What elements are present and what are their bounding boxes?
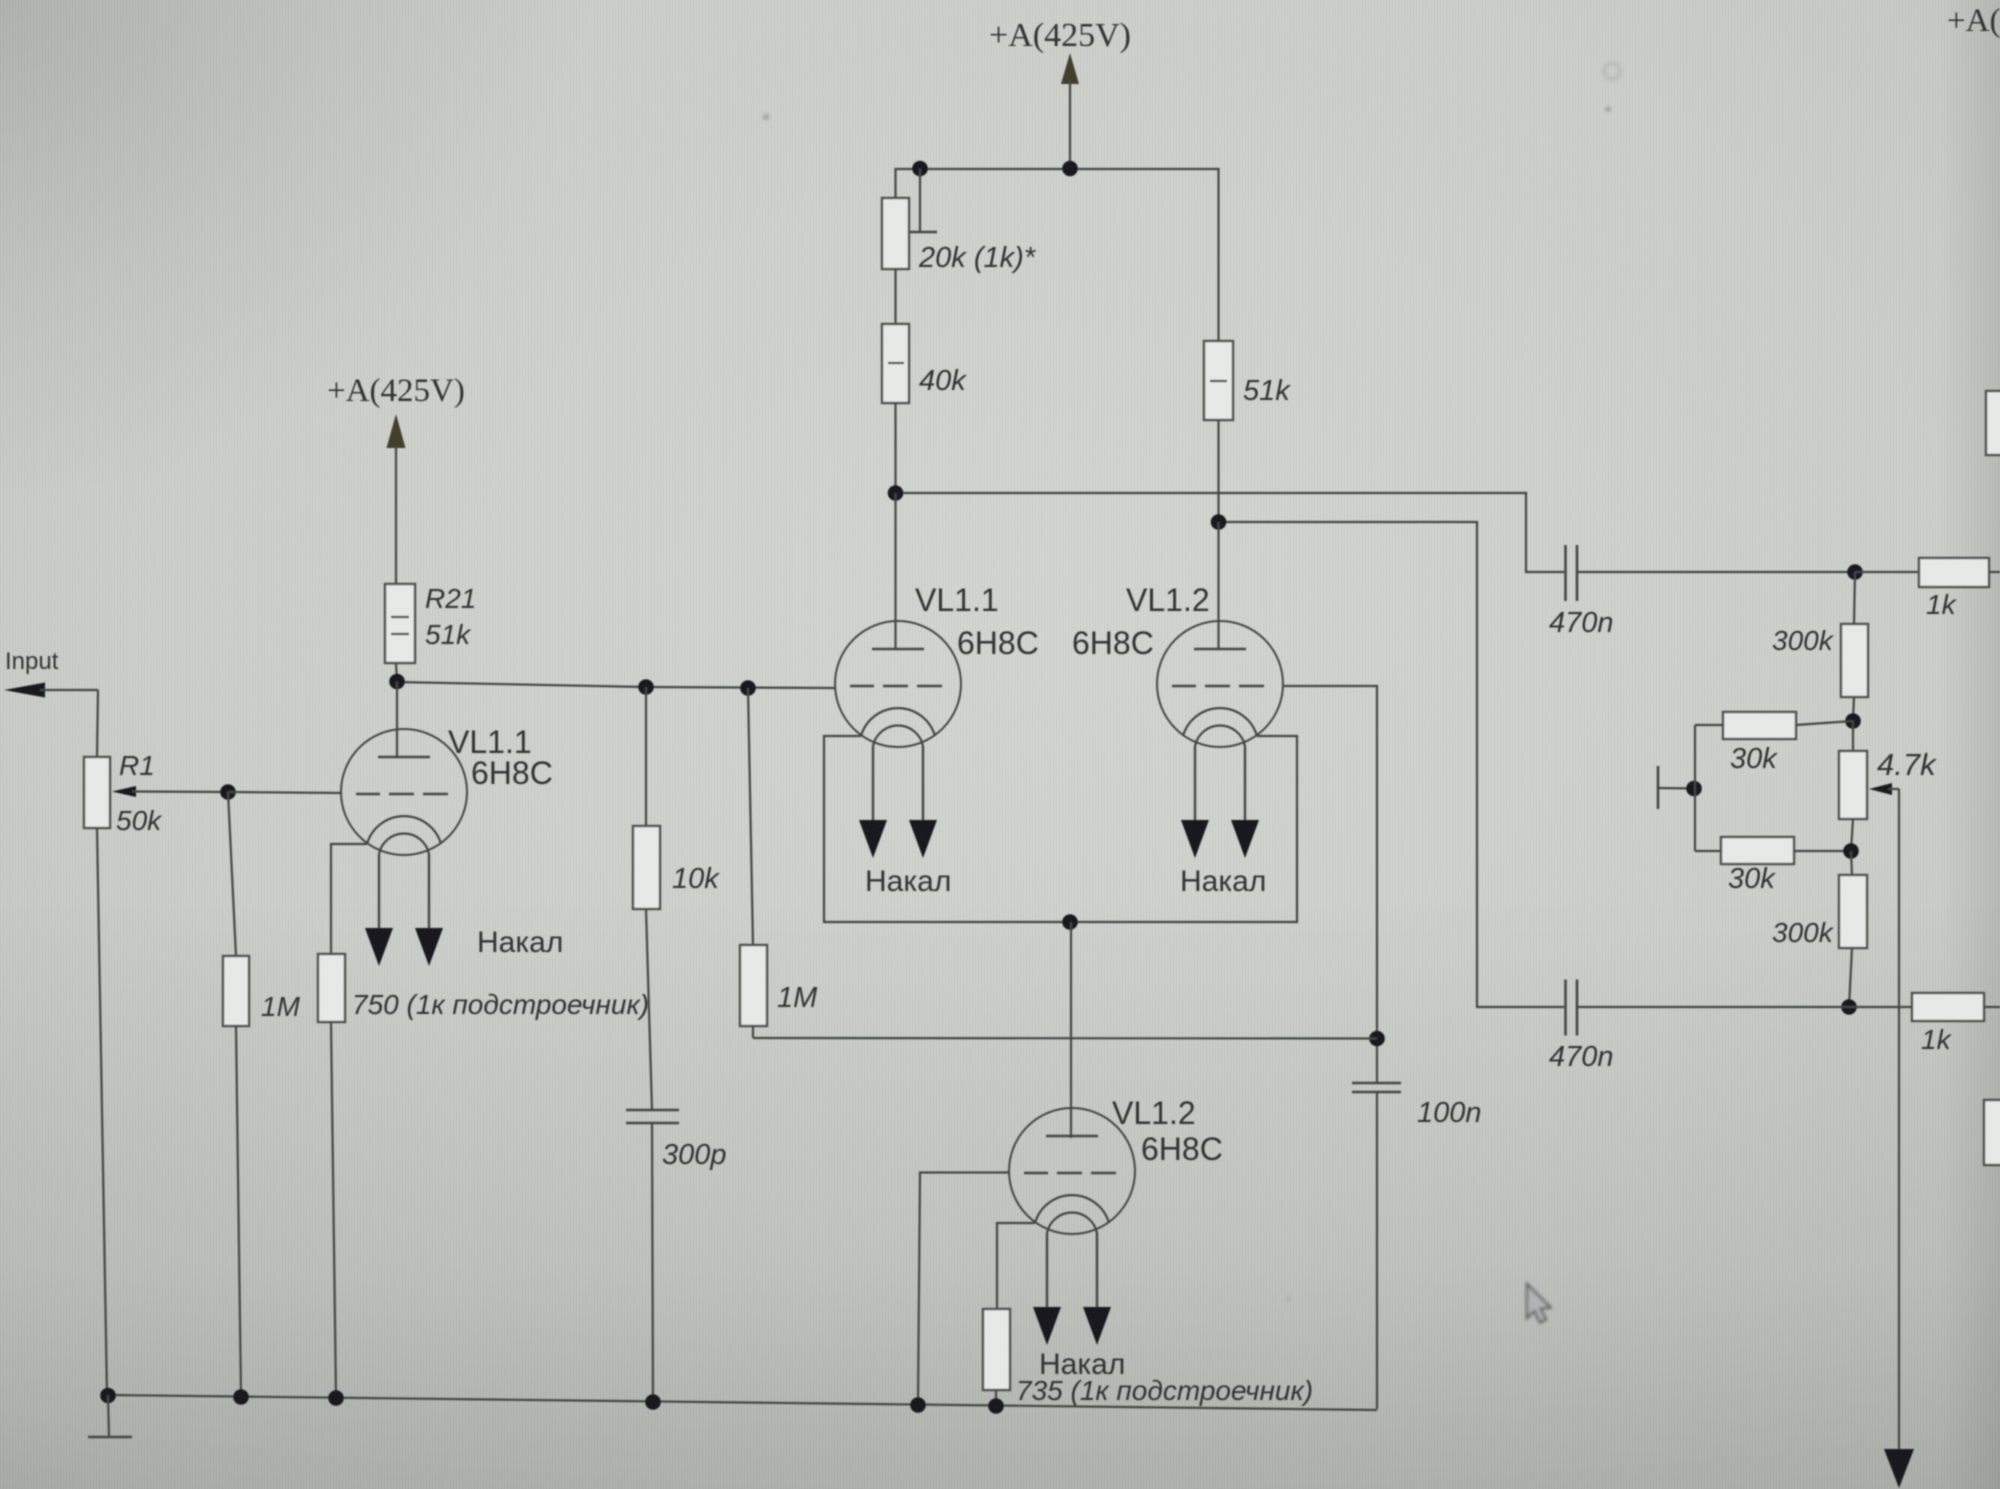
resistor R21 51k — [385, 583, 476, 663]
node: rail R1 — [100, 1388, 116, 1404]
wire: 30k pair vertical — [1694, 725, 1696, 851]
node: cathode loop junction — [1062, 914, 1078, 930]
wire: left tube cathode to 750 — [331, 844, 367, 954]
node: rail 735 — [988, 1398, 1004, 1414]
node: bottom divider junction — [1841, 999, 1857, 1015]
terminal stub (balance tap) — [1658, 766, 1694, 809]
capacitor 470n top — [1549, 545, 1614, 639]
resistor 30k bottom — [1695, 837, 1851, 895]
wire: cathode loop of center tubes — [824, 736, 1297, 922]
resistor 1k bottom — [1849, 993, 2000, 1055]
wire: 40k down to anode node VL1.1 — [894, 403, 896, 493]
node: 30k pair junction — [1686, 781, 1702, 797]
node: grid line junction (10k) — [638, 679, 654, 695]
wire: input node with arrow — [4, 683, 98, 758]
node: VL1.1 anode junction — [888, 485, 904, 501]
power rail +A(425V) top center — [989, 17, 1131, 168]
node: feeder junction at +A drop — [1062, 161, 1078, 177]
wire: ground rail — [108, 1395, 1377, 1410]
triode VL1.2 (center) — [1072, 582, 1283, 858]
wire: VL1.1 anode node to top 470n — [896, 493, 1565, 572]
resistor 51k (VL1.2 anode load) — [1204, 341, 1291, 420]
node: rail 300p — [645, 1394, 661, 1410]
resistor (clipped, right edge, mid) — [1986, 391, 2000, 455]
triode VL1.2 (bottom) — [1009, 1095, 1223, 1345]
wire: VL1.2 anode node to bottom 470n — [1219, 522, 1565, 1007]
node: top divider junction — [1847, 564, 1863, 580]
resistor (clipped, right edge, bottom) — [1984, 1100, 2000, 1165]
resistor 1M (left) — [223, 792, 301, 1396]
wire: VL1.2 center grid to right column — [1284, 686, 1377, 1083]
node: 30k bottom junction — [1843, 843, 1859, 859]
wire: bottom tube grid to ground rail — [918, 1173, 1009, 1405]
mouse cursor — [1527, 1284, 1551, 1323]
capacitor 100n — [1352, 1083, 1482, 1409]
ground terminal — [88, 1395, 132, 1437]
resistor 40k — [882, 324, 967, 403]
wire: 470n bottom to 1k node — [1577, 1006, 1849, 1008]
resistor 1M (center) — [740, 688, 818, 1038]
faint screen specks — [763, 63, 1621, 1302]
triode VL1.1 (left input) — [341, 724, 553, 966]
wire: trimmer tap of 20k — [908, 169, 937, 233]
wire: 1M center to 100n node — [753, 1037, 1377, 1040]
resistor 10k grid stopper — [633, 687, 720, 1110]
capacitor 470n bottom — [1549, 980, 1614, 1074]
resistor 20k (1k)* trimmer — [882, 198, 1037, 274]
wire: anode lead into VL1.1 center — [894, 493, 896, 650]
node: 300k/30k/4.7k junction top — [1845, 713, 1861, 729]
node: rail grid VL1.2 bottom — [910, 1397, 926, 1413]
wire: R1 bottom to ground rail — [97, 828, 107, 1395]
resistor R1 50k potentiometer — [84, 750, 163, 836]
resistor 1k top — [1855, 558, 2000, 620]
capacitor 300p — [626, 1110, 727, 1401]
resistor 300k top — [1772, 572, 1868, 721]
power +A(425V) left — [327, 373, 465, 584]
node: wiper/1M junction — [220, 784, 236, 800]
resistor 750 (1k trimmer) cathode bias — [318, 954, 649, 1397]
resistor 735 (1k trimmer) — [983, 1309, 1313, 1406]
wire: 51k down to anode node VL1.2 — [1217, 420, 1219, 522]
node: junction 1M feedback / 100n — [1369, 1031, 1385, 1047]
node: rail 750 — [328, 1390, 344, 1406]
node: VL1.2 anode junction — [1211, 514, 1227, 530]
wire: heater node down to VL1.2 bottom anode — [1070, 922, 1072, 1138]
node: rail 1M left — [233, 1389, 249, 1405]
wire: grid feed VL1.1 center — [397, 682, 835, 688]
wire: 470n top to 1k node — [1577, 571, 1855, 573]
potentiometer 4.7k — [1839, 721, 1937, 851]
wire: R21 to VL1.1 left anode node — [396, 663, 397, 682]
wire: anode lead into VL1.2 center — [1217, 522, 1219, 650]
node: VL1.1 left anode junction — [389, 674, 405, 690]
wire: top feeder rail — [896, 169, 1219, 341]
wire: 20k to 40k — [894, 269, 896, 324]
resistor 300k bottom — [1772, 851, 1867, 1007]
wire: R1 wiper arrow to grid — [112, 786, 228, 797]
node: grid line junction (1M) — [740, 680, 756, 696]
wire: anode lead into VL1.1 left — [396, 682, 398, 759]
resistor 30k top — [1695, 712, 1853, 775]
triode VL1.1 (center) — [835, 582, 1039, 858]
wire: 4.7k wiper, long run down with arrow — [1869, 783, 1914, 1488]
node: 20k trimmer tap junction — [912, 161, 928, 177]
wire: grid feed VL1.1 left — [228, 792, 341, 793]
wire: bottom tube cathode to 735 — [997, 1223, 1035, 1309]
